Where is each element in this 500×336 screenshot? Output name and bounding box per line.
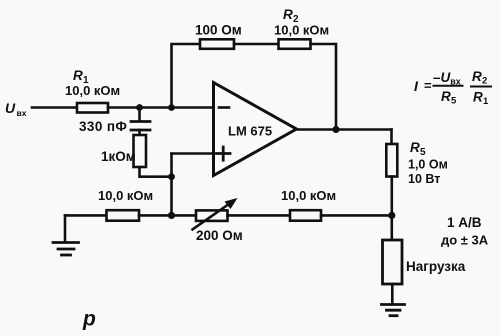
svg-text:1 А/В: 1 А/В [447, 215, 482, 230]
svg-text:10,0 кОм: 10,0 кОм [98, 188, 153, 203]
wire output corner down to R5 [390, 130, 393, 145]
svg-text:10,0 кОм: 10,0 кОм [274, 23, 329, 38]
node Uvx label [5, 100, 27, 118]
wire cap stub [138, 108, 141, 121]
ground right [382, 305, 405, 316]
svg-text:2: 2 [482, 76, 487, 87]
formula fraction bar 2 [471, 86, 491, 88]
svg-text:10,0 кОм: 10,0 кОм [281, 188, 336, 203]
junction node B (feedback tap) [168, 104, 175, 111]
pin plus symbol [217, 147, 231, 160]
pin minus symbol [219, 106, 229, 109]
wire load to ground [391, 284, 394, 304]
svg-text:R: R [473, 90, 483, 105]
wire left ground drop [64, 215, 67, 242]
svg-text:R: R [472, 69, 482, 84]
wire to non-inverting input [172, 152, 214, 155]
load box Нагрузка [383, 240, 403, 284]
resistor R4 10,0 kOm (bottom left) [107, 210, 140, 221]
resistor 100 Om [200, 39, 234, 49]
junction node D (sense) [388, 212, 395, 219]
capacitor C1 330pF [131, 122, 150, 131]
wire rail segment 3 [228, 214, 291, 217]
bottom rail wire left segment [65, 214, 107, 217]
potentiometer P1 200 Om [196, 210, 228, 221]
resistor R6 10,0 kOm (bottom right) [290, 210, 321, 221]
wire feedback left vertical [172, 44, 201, 108]
svg-text:330 пФ: 330 пФ [79, 119, 127, 134]
wire R2 to output node [311, 44, 337, 130]
svg-text:вх: вх [17, 108, 27, 118]
junction node OUT [332, 126, 339, 133]
op-amp U1 LM675 [214, 83, 297, 176]
svg-text:10,0 кОм: 10,0 кОм [65, 83, 120, 98]
wire rail segment 2 [139, 214, 196, 217]
junction node C [168, 173, 175, 180]
svg-text:5: 5 [420, 147, 426, 158]
ground left [53, 243, 79, 256]
wire node C vertical to + input and to bottom rail [170, 154, 173, 216]
svg-text:Нагрузка: Нагрузка [406, 259, 466, 274]
svg-text:1: 1 [483, 96, 489, 107]
label R2 [283, 7, 299, 25]
potentiometer arrow [193, 198, 238, 230]
svg-text:5: 5 [451, 96, 457, 107]
svg-text:100 Ом: 100 Ом [195, 23, 242, 38]
svg-text:=: = [424, 78, 432, 93]
svg-text:200 Ом: 200 Ом [196, 228, 243, 243]
svg-text:1,0 Ом: 1,0 Ом [408, 158, 448, 172]
svg-text:10 Вт: 10 Вт [408, 172, 440, 186]
resistor R1 [77, 103, 108, 113]
wire cap to R3 [138, 130, 141, 135]
wire between feedback resistors [234, 43, 279, 46]
junction node A (cap tap) [136, 104, 143, 111]
resistor R5 [386, 144, 397, 177]
svg-text:p: p [82, 308, 96, 331]
svg-text:R: R [73, 68, 83, 83]
junction node C on rail [168, 212, 175, 219]
wire input to R1 [32, 106, 77, 109]
wire R3 bottom to node C [140, 167, 172, 177]
svg-text:до ± 3А: до ± 3А [441, 233, 489, 248]
formula fraction bar 1 [434, 85, 463, 87]
wire output [297, 128, 392, 131]
svg-text:LM 675: LM 675 [228, 124, 272, 139]
label R1 [73, 68, 89, 86]
svg-text:R: R [410, 140, 420, 155]
wire R5 to load [390, 177, 393, 241]
wire rail segment 4 [321, 214, 392, 217]
svg-text:R: R [441, 89, 451, 104]
svg-text:1кОм: 1кОм [101, 149, 136, 164]
resistor R3 1kOm [134, 135, 147, 167]
label R5 [410, 140, 426, 158]
wire R1 to inverting input [108, 106, 214, 109]
resistor R2 [279, 39, 311, 49]
svg-text:R: R [283, 7, 293, 22]
formula I = -Uvx/R5 * R2/R1 [414, 69, 489, 107]
svg-text:U: U [5, 100, 16, 116]
